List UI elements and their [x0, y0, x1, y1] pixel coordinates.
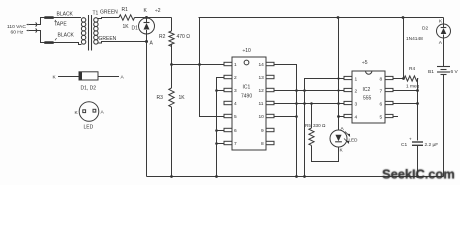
svg-text:8: 8	[380, 77, 383, 83]
wire branch down to IC1 pin 5	[200, 18, 225, 117]
wire secondary top (GREEN) to R1	[98, 18, 120, 19]
ground rail (bottom)	[147, 176, 444, 178]
wire splice to transformer primary bottom	[54, 43, 82, 45]
wire R5 branch down	[311, 104, 313, 129]
svg-text:A: A	[341, 126, 345, 132]
pictorial diode package D1 D2	[53, 72, 125, 81]
wire plug bottom to splice	[35, 31, 44, 43]
wire IC2 pin 6 to column	[393, 103, 418, 105]
IC1 pin numbers left	[234, 62, 237, 147]
svg-text:6 V: 6 V	[451, 69, 459, 75]
svg-text:K: K	[75, 110, 79, 116]
junction rail x296	[295, 175, 298, 178]
svg-text:A: A	[439, 40, 443, 46]
wire IC2 pin 7 to column	[393, 90, 418, 92]
svg-text:R4: R4	[409, 66, 415, 72]
svg-text:IC1: IC1	[243, 85, 251, 91]
svg-text:A: A	[150, 41, 154, 47]
svg-text:÷5: ÷5	[362, 60, 368, 66]
junction bracket pin6	[215, 129, 218, 132]
svg-text:D1, D2: D1, D2	[81, 86, 97, 92]
svg-text:R2: R2	[159, 34, 166, 40]
junction pin10 column	[295, 115, 298, 118]
svg-text:GREEN: GREEN	[100, 10, 118, 16]
junction LED column on pin2 row	[337, 89, 339, 91]
LED1 indicator (circled)	[330, 130, 350, 147]
IC1 pin stubs left	[224, 62, 232, 144]
wire rail to D2 cathode	[443, 18, 445, 25]
svg-text:K: K	[53, 75, 57, 81]
op IC1 7490 body	[232, 57, 266, 150]
junction pin4	[337, 115, 340, 118]
junction pin11 column	[295, 102, 298, 105]
svg-text:T1: T1	[93, 11, 99, 17]
junction bracket pin7	[215, 142, 218, 145]
svg-text:R5: R5	[305, 123, 311, 128]
svg-text:11: 11	[259, 101, 264, 107]
resistor R2 470 ohm	[169, 31, 174, 46]
svg-text:BLACK: BLACK	[57, 12, 74, 18]
wire plug top to splice	[35, 18, 44, 25]
svg-text:4: 4	[355, 115, 358, 121]
wire Vcc node to IC1 pin 1	[172, 64, 225, 66]
wire D2 anode to battery	[443, 38, 445, 67]
junction LED column on pin1 row	[337, 77, 339, 79]
svg-text:6: 6	[380, 102, 383, 108]
svg-text:470 Ω: 470 Ω	[177, 34, 191, 40]
svg-text:GREEN: GREEN	[99, 36, 117, 42]
resistor R1 1K	[119, 15, 135, 20]
junction x304 on pin3 row	[303, 102, 306, 105]
svg-text:12: 12	[259, 88, 265, 94]
top supply rail (K net)	[147, 17, 172, 19]
svg-text:R1: R1	[122, 7, 129, 13]
junction R5 branch	[310, 102, 313, 105]
svg-text:2: 2	[355, 89, 358, 95]
svg-text:D1: D1	[132, 26, 139, 32]
wire R3 down to ground rail	[171, 107, 173, 177]
svg-text:B1: B1	[428, 69, 434, 75]
junction pin1 column on pin12 row	[303, 89, 306, 92]
svg-text:5: 5	[380, 115, 383, 121]
wire IC2 pin 4 stub to LED column	[339, 116, 345, 118]
wire ground bracket down to rail	[216, 91, 218, 177]
junction rail R3	[170, 175, 173, 178]
wire rail down LED column	[338, 18, 340, 131]
wire R1 to node K	[135, 17, 147, 19]
svg-text:A: A	[101, 110, 105, 116]
wire IC1 pin 3 to ground bracket	[217, 90, 225, 92]
wire R2 to Vcc node	[171, 44, 173, 65]
AC plug P1	[26, 23, 37, 33]
svg-text:7: 7	[380, 89, 383, 95]
node A junction (D1 anode)	[145, 40, 148, 43]
svg-text:IC2: IC2	[363, 87, 371, 93]
wire IC2 pin 1 row	[305, 79, 345, 91]
svg-text:3: 3	[355, 102, 358, 108]
splice (taped joint) top	[44, 16, 54, 19]
wire IC2 pin 5 stub	[393, 116, 398, 118]
wire IC1 pin 11 to column	[274, 103, 297, 105]
wire splice to transformer primary top	[54, 17, 81, 19]
svg-text:D2: D2	[422, 26, 428, 32]
resistor R5 330 ohm	[309, 128, 314, 145]
svg-text:60 Hz: 60 Hz	[11, 30, 24, 36]
svg-text:7490: 7490	[241, 94, 252, 100]
wire R5 to loop bottom	[312, 146, 339, 162]
svg-text:6: 6	[234, 128, 237, 134]
wire IC1 pin 12 to IC2 pin 2	[274, 90, 344, 92]
wire C1 down to ground rail	[417, 145, 419, 176]
svg-text:2: 2	[234, 75, 237, 81]
junction pin6	[416, 102, 419, 105]
op IC2 555 body	[352, 71, 385, 123]
junction rail/LED column	[337, 16, 340, 19]
junction rail C1	[416, 175, 419, 178]
svg-text:13: 13	[259, 75, 265, 81]
wire IC2 pin 3 row	[297, 103, 345, 105]
wire IC1 pin 14 right then down	[274, 65, 297, 91]
svg-text:K: K	[340, 148, 344, 154]
wire R4 to discharge column	[417, 79, 420, 141]
wire column x296 down to ground rail	[296, 91, 298, 177]
svg-text:÷2: ÷2	[155, 8, 161, 14]
IC2 pin numbers	[355, 77, 383, 121]
wire D1 anode down to ground rail	[146, 42, 148, 177]
wire rail down to R2	[171, 18, 173, 32]
wire rail down to pin8 node	[403, 18, 405, 79]
svg-text:1: 1	[234, 62, 237, 68]
junction at pin5 branch	[198, 63, 201, 66]
junction pin7	[416, 89, 419, 92]
wire IC1 pin 10 to column	[274, 116, 297, 118]
wire column x304 down to ground rail	[304, 91, 306, 177]
svg-text:+: +	[409, 137, 412, 142]
svg-text:7: 7	[234, 141, 237, 147]
svg-text:LED: LED	[349, 138, 359, 143]
svg-text:5: 5	[234, 114, 237, 120]
wire IC1 pin 2 to ground bracket	[217, 78, 225, 91]
splice (taped joint) bottom	[44, 41, 54, 44]
svg-text:4: 4	[234, 101, 237, 107]
wire IC2 pin 8 to R4	[393, 78, 404, 80]
capacitor C1 2.2 uF	[409, 137, 423, 146]
svg-text:2.2 μF: 2.2 μF	[425, 142, 439, 148]
junction Vcc column R4	[402, 77, 405, 80]
svg-text:1: 1	[355, 77, 358, 83]
svg-text:R3: R3	[157, 95, 164, 101]
svg-text:TAPE: TAPE	[54, 22, 67, 28]
junction LED column on pin3 row	[337, 102, 340, 105]
wire secondary bottom (GREEN) to D1 anode	[98, 42, 147, 44]
transformer T1	[81, 15, 98, 51]
svg-text:BLACK: BLACK	[58, 33, 75, 39]
svg-text:A: A	[121, 75, 125, 81]
svg-text:110 VAC: 110 VAC	[7, 24, 26, 30]
IC1 pin numbers right	[259, 62, 265, 147]
svg-text:10: 10	[259, 114, 265, 120]
IC2 pin stubs left	[344, 76, 352, 117]
resistor R4 1 meg	[404, 76, 418, 81]
diode D1 (circled)	[139, 18, 155, 42]
svg-text:1K: 1K	[123, 24, 130, 30]
svg-text:555: 555	[363, 96, 372, 102]
svg-text:330 Ω: 330 Ω	[313, 123, 326, 128]
svg-text:÷10: ÷10	[243, 48, 252, 54]
svg-text:1N4148: 1N4148	[406, 36, 423, 42]
wire Vcc node down to R3	[171, 65, 173, 89]
node K junction	[145, 16, 148, 19]
wire IC1 pin 7 to ground bracket	[217, 143, 225, 145]
svg-text:14: 14	[259, 62, 265, 68]
wire battery down to ground rail	[443, 75, 445, 177]
resistor R3 1K	[169, 88, 174, 107]
battery B1 6V	[437, 67, 450, 75]
svg-text:K: K	[144, 8, 148, 14]
svg-text:8: 8	[261, 141, 264, 147]
AC source label 110 VAC 60 Hz	[7, 24, 26, 36]
svg-text:1K: 1K	[179, 95, 186, 101]
junction rail bracket	[215, 175, 218, 178]
IC1 pin stubs right	[266, 62, 274, 144]
svg-text:9: 9	[261, 128, 264, 134]
IC2 pin stubs right	[385, 76, 393, 117]
svg-text:3: 3	[234, 88, 237, 94]
diode D2 (circled)	[437, 24, 451, 38]
junction pin14 column on pin12 row	[295, 89, 298, 92]
junction bracket pin3	[215, 89, 218, 92]
pictorial LED package (bottom view)	[75, 102, 105, 122]
svg-text:LED: LED	[84, 125, 94, 131]
wire IC1 pin 6 to ground bracket	[217, 130, 225, 132]
svg-text:C1: C1	[401, 142, 407, 148]
junction rail x304	[303, 175, 306, 178]
junction Vcc node	[170, 63, 173, 66]
svg-text:SeekIC.com: SeekIC.com	[382, 167, 455, 182]
junction rail/R4 column	[402, 16, 405, 19]
